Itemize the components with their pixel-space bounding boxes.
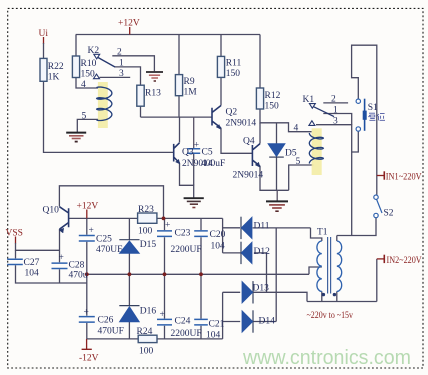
capacitor C20 plates [194,231,208,237]
diode D13 [252,281,254,303]
switch S1 button [363,111,367,120]
transformer T1 core [328,237,331,294]
junction dots mid rail [85,217,203,277]
capacitor C21 plates [194,319,208,325]
wire C5 bottom to ground [193,154,195,185]
resistor R11 [217,56,224,77]
svg-text:150: 150 [81,70,96,80]
transformer polarity dots [322,293,325,296]
svg-text:+: + [194,141,199,151]
capacitor C28 plates [52,263,68,268]
svg-text:R24: R24 [137,327,153,337]
svg-text:D11: D11 [254,222,270,232]
capacitor C25 plates [79,236,95,242]
switch S2 contact bottom [374,213,378,217]
wire secondary top tail [336,236,338,242]
wire Q4 emitter rail [260,166,289,190]
capacitor C23 plates [157,231,172,237]
relay K1 arm [314,107,334,117]
diode D5 [268,144,284,156]
svg-text:C5: C5 [202,148,213,158]
relay K1 pin3 triangle [309,121,315,126]
wire Q4 collector [259,123,261,144]
wire mid rail [87,273,309,275]
svg-text:3: 3 [333,117,338,127]
svg-text:100: 100 [138,227,153,237]
wire C25 leg [86,218,88,274]
wire -12V tick [82,339,92,349]
wire bottom transformer line [307,301,377,303]
svg-text:C28: C28 [69,261,85,271]
svg-text:R11: R11 [226,59,242,69]
wire R13 bottom to base line [140,106,142,117]
wire top power rail [69,217,223,219]
diode D16 [119,305,139,307]
wire R12 bottom to K1 pin4 [260,109,312,132]
svg-text:R9: R9 [184,77,195,87]
svg-text:www.cntronics.com: www.cntronics.com [242,347,411,369]
wire C23 legs [164,218,166,274]
svg-text:470UF: 470UF [98,327,124,337]
svg-text:Q4: Q4 [243,137,255,147]
wire IN2 drop [376,259,378,302]
label S1 reset glyphs [369,113,386,120]
wire D12 row [223,253,267,292]
wire center tap [309,267,322,274]
svg-text:C24: C24 [175,317,191,327]
wire rail to R9 [178,35,180,75]
svg-text:+: + [84,308,89,318]
wire Ui input drop [43,37,45,44]
svg-text:S2: S2 [384,209,394,219]
ground Q3-C5 [184,198,204,207]
wire C20 legs [200,218,202,274]
relay K2 arm [98,58,115,68]
svg-text:Ui: Ui [39,29,49,39]
relay K2 pivot triangle [94,54,100,59]
wire rail to R11 [220,35,222,57]
resistor R12 [256,88,263,109]
transistor Q2 [212,106,221,129]
wire D14 row [223,321,277,323]
resistor R23 [138,213,157,223]
svg-text:1K: 1K [48,73,60,83]
svg-text:VSS: VSS [6,229,23,239]
wire K2 pin2 contact [112,56,154,72]
svg-text:K2: K2 [88,46,100,56]
wire K2 pin3 contact [100,76,131,78]
svg-text:IN1~220V: IN1~220V [386,173,422,183]
svg-text:4: 4 [294,124,299,134]
svg-text:100: 100 [139,347,154,357]
svg-text:5: 5 [296,157,301,167]
wire bridge minus bus [222,292,224,339]
transformer T1 left winding [317,241,322,291]
resistor R13 [137,85,144,106]
svg-text:D14: D14 [259,317,276,327]
ground K2-pin2 [146,72,163,81]
switch S1 contact bottom [356,127,360,131]
transistor Q3 [174,143,180,163]
svg-text:1: 1 [333,106,338,116]
wire +12V tick Q10 [86,210,88,219]
svg-text:150: 150 [265,102,280,112]
ground Q4-D5 [266,201,288,211]
wire S1 top bracket [352,45,377,195]
wire K2 pin5 to ground [77,119,98,133]
relay K2 pin3 triangle [94,74,100,79]
switch S2 contact top [374,195,378,199]
switch S1 contact top [356,99,360,103]
wire Ui to R22 [43,43,45,58]
resistor R10 [72,56,79,78]
wire winding bottom tails [322,291,337,301]
svg-text:R22: R22 [48,62,64,72]
svg-text:+: + [165,221,170,231]
wire K1 pin3 contact [316,125,352,236]
diode D11 [240,217,242,239]
wire K1 pin1 contact [323,114,351,125]
svg-text:C25: C25 [96,235,112,245]
svg-text:4: 4 [81,80,86,90]
svg-text:104: 104 [206,331,221,341]
wire IN2 port stub [377,258,385,260]
svg-text:2200UF: 2200UF [171,329,202,339]
capacitor C27 plates [7,259,23,264]
wire C21 legs [200,274,202,339]
wire C26 leg [86,274,88,339]
ground K2-pin5 [66,133,86,142]
wire primary top from D11 [311,228,322,241]
svg-text:D15: D15 [140,240,157,250]
wire rail to R10 [75,35,77,57]
wire D16 legs [128,274,130,339]
wire Q2 base line [141,116,213,118]
capacitor C24 plates [157,319,172,325]
relay K1 coil [309,133,323,164]
svg-text:Q2: Q2 [226,108,238,118]
transistor Q4 [252,144,260,167]
wire D13 row [223,292,307,301]
wire R9 bottom [178,96,180,117]
wire R10 bottom to K2 pin4 [76,78,98,89]
IN1 port bar [383,171,385,179]
wire K1 pin2 contact [323,102,348,104]
wire R22 bottom to Q3 base [44,81,174,152]
svg-text:+: + [89,226,94,236]
svg-text:D12: D12 [254,247,271,257]
svg-text:2N9014: 2N9014 [226,119,257,129]
diode D14 [252,310,254,332]
wire S1 bottom jog [352,131,359,152]
svg-text:C23: C23 [175,229,191,239]
wire ground stem D5 [276,190,278,201]
wire +12V tick [129,27,131,35]
wire K2 pin1 contact to R13 [114,67,140,85]
transformer T1 right winding [337,241,342,291]
resistor R24 [138,335,157,342]
svg-text:150: 150 [226,69,241,79]
svg-text:104: 104 [25,269,40,279]
svg-text:R12: R12 [265,91,281,101]
svg-text:R23: R23 [138,205,154,215]
svg-text:C21: C21 [209,320,225,330]
diode D15 [119,239,139,241]
svg-text:470u: 470u [69,271,88,281]
svg-text:+12V: +12V [77,202,99,212]
svg-text:2N9014: 2N9014 [233,171,264,181]
wire K1 pin5 [289,165,314,190]
wire Q3 emitter down [180,163,194,198]
IN2 port bar [383,255,385,263]
svg-text:1: 1 [119,59,124,69]
wire VSS to emitter [16,243,60,250]
svg-text:~220v to ~15v: ~220v to ~15v [307,311,354,321]
svg-text:3: 3 [119,69,124,79]
svg-text:+: + [160,310,165,320]
wire S2 bottom to transformer line [337,218,376,236]
resistor R9 [175,75,182,96]
svg-text:2: 2 [331,95,336,105]
capacitor C26 plates [79,317,95,323]
wire top-net vertical [275,228,277,322]
svg-text:1M: 1M [184,88,198,98]
svg-text:R13: R13 [145,89,161,99]
svg-text:Q3: Q3 [182,148,194,158]
capacitor C5 plates [187,149,200,153]
switch S2 arm [377,199,382,213]
svg-text:+: + [59,253,64,263]
wire C28 bottom [59,269,61,283]
svg-text:R10: R10 [81,59,97,69]
svg-text:T1: T1 [317,228,328,238]
wire bottom rail [87,338,223,340]
relay K1 pivot triangle [309,104,315,109]
svg-text:IN2~220V: IN2~220V [387,256,422,266]
wire +12V top rail [76,34,260,36]
svg-text:S1: S1 [368,103,378,113]
svg-text:K1: K1 [303,95,315,105]
junction dot R23 right [162,217,166,221]
wire C24 legs [164,274,166,339]
wire D15 legs [128,218,130,274]
wire Q10 emitter down [59,229,61,262]
wire D5 top [276,123,278,144]
wire D5 bottom [276,157,278,190]
svg-text:2200UF: 2200UF [171,245,202,255]
wire Q3 collector [179,117,181,142]
svg-text:C20: C20 [210,230,226,240]
svg-text:400uF: 400uF [201,159,225,169]
wire rail to R12 [259,35,261,89]
relay K1 coil highlight [312,128,322,175]
svg-text:D13: D13 [253,284,270,294]
wire bridge plus bus [223,218,240,253]
relay K2 coil [97,87,112,120]
wire D11 row [223,227,311,229]
svg-text:5: 5 [82,112,87,122]
transistor Q10 [59,207,68,230]
svg-text:C27: C27 [24,258,40,268]
wire IN1 port stub [377,175,385,177]
svg-text:2: 2 [117,48,122,58]
diode D12 [240,242,242,264]
wire VSS drop [15,237,17,244]
svg-text:104: 104 [211,242,226,252]
wire Q10 collector loop to R23 right [59,186,163,219]
resistor R22 [40,58,47,81]
svg-text:470UF: 470UF [96,245,122,255]
relay K2 coil highlight [98,82,108,128]
wire R11 to Q2 collector [220,77,222,105]
svg-text:+12V: +12V [118,19,140,29]
svg-text:C26: C26 [98,316,114,326]
wire C5 top [193,117,195,148]
svg-text:D16: D16 [140,307,157,317]
svg-text:Q10: Q10 [43,206,60,216]
wire C27 branch [16,250,87,283]
switch S1 actuator bar [364,99,366,131]
svg-text:-12V: -12V [79,354,99,364]
wire Q2 emitter to Q4 base [221,128,252,153]
